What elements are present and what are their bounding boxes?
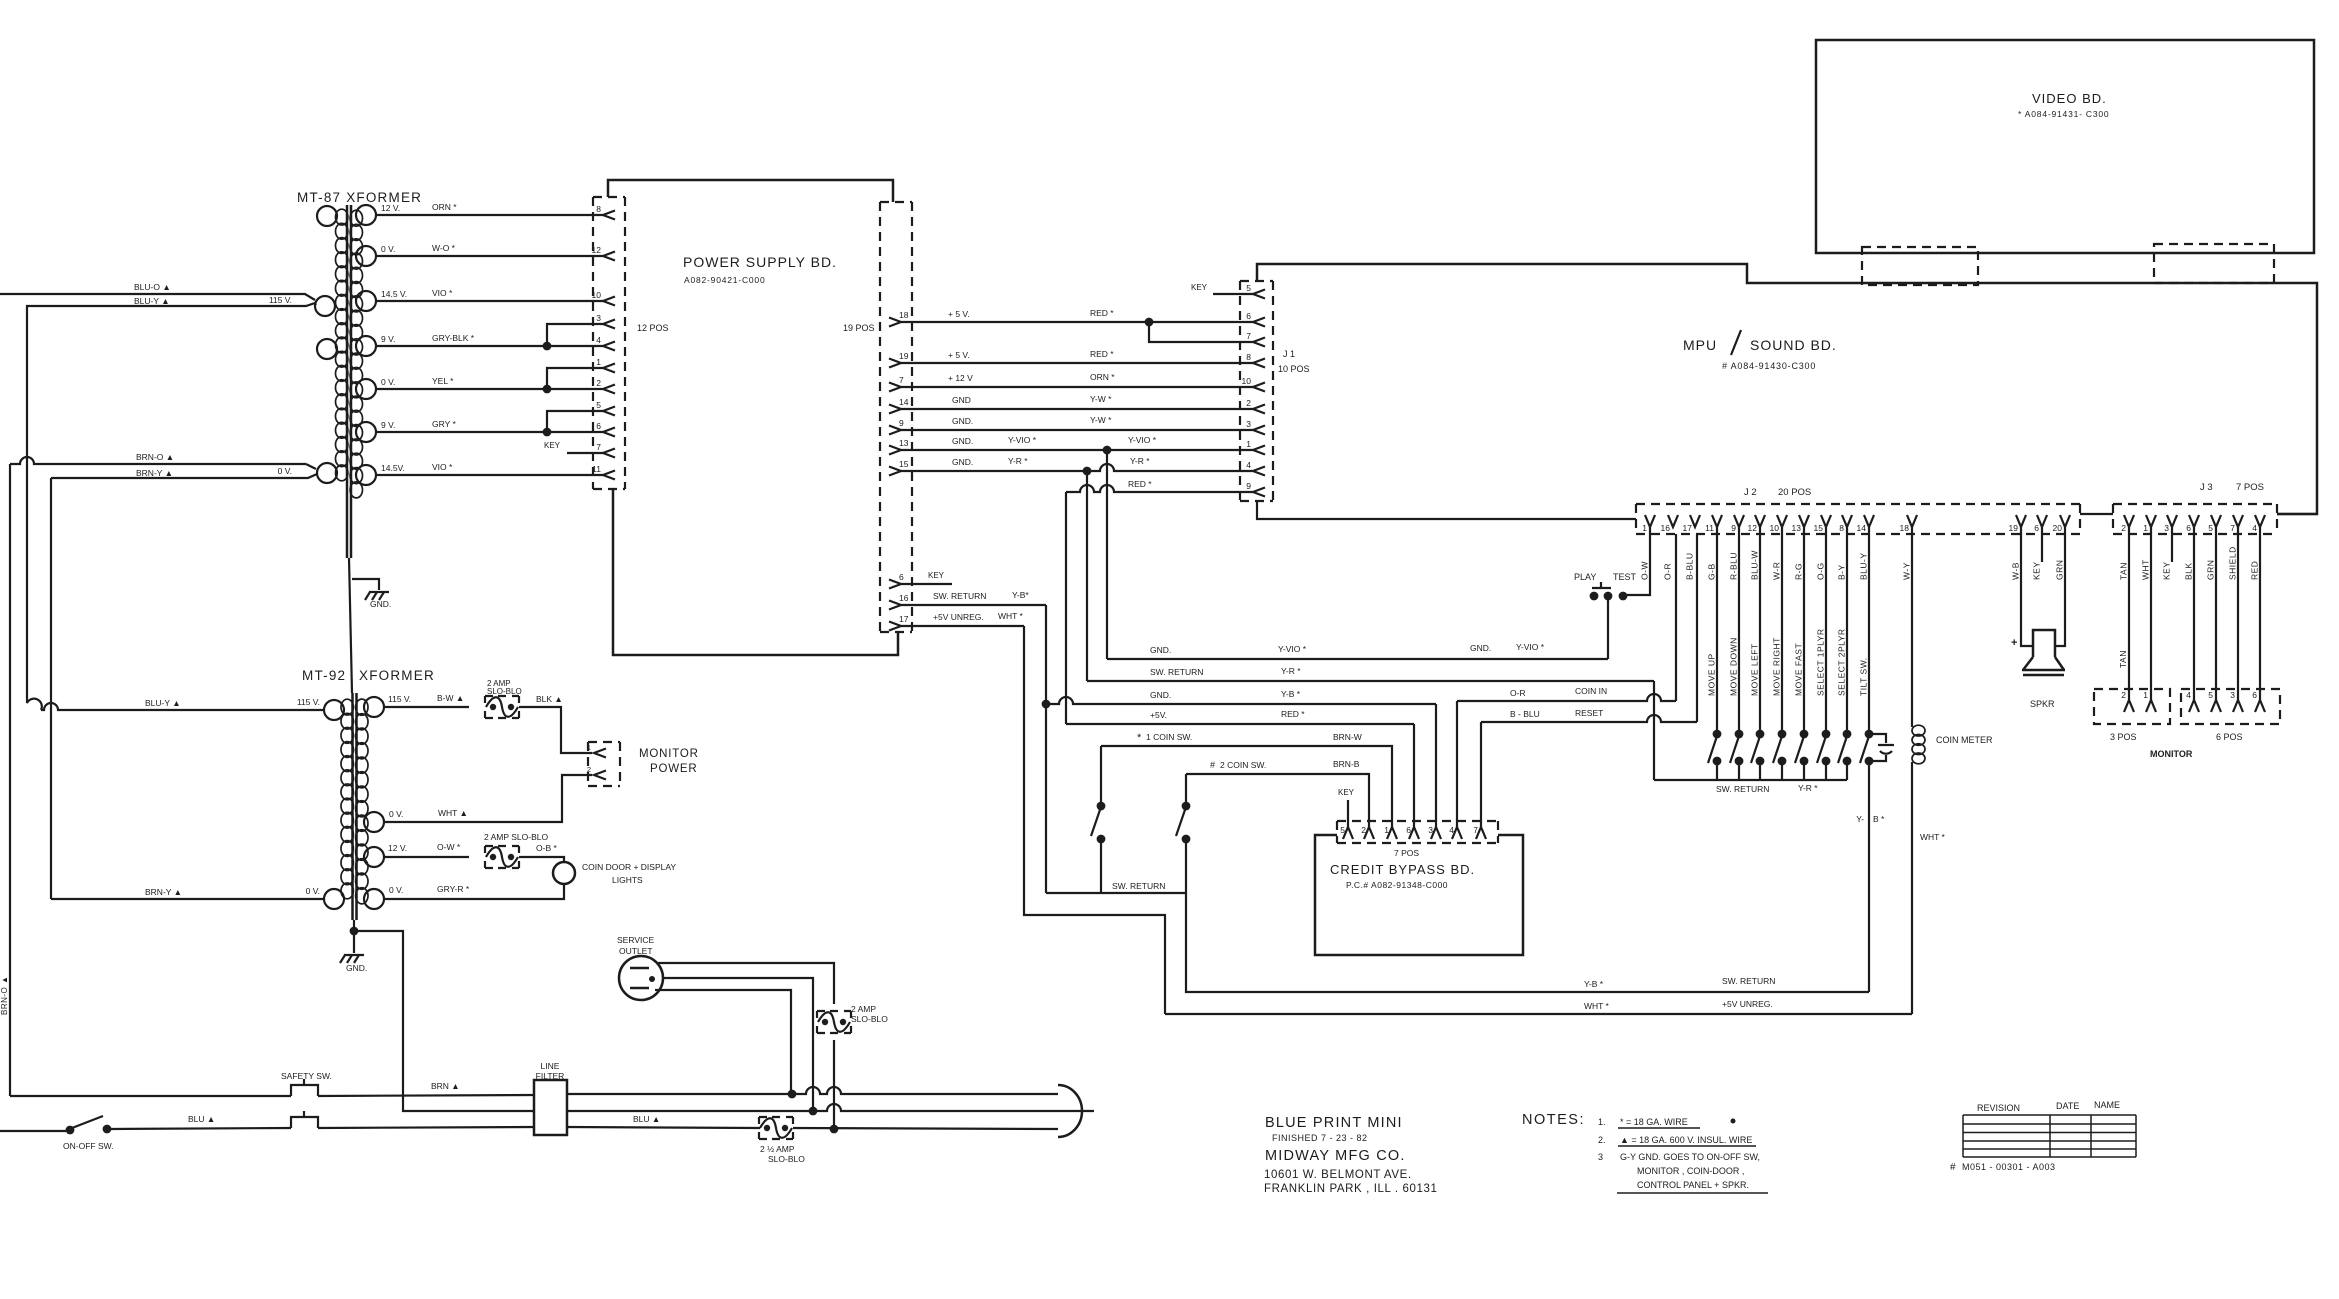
junction BLU / service outlet [830,1125,839,1134]
wire BRN-Y vertical to MT-92 0V [50,478,52,899]
switch MOVE DOWN stem to SW.RETURN bus [1738,761,1740,780]
svg-text:3: 3 [1428,825,1433,835]
svg-text:115 V.: 115 V. [388,694,411,704]
svg-text:GND: GND [952,395,971,405]
svg-text:2: 2 [1246,398,1251,408]
wire +5V RED PSU pin18 to J1 pin6 [901,321,1253,323]
wire MT-87 14.5V. VIO * to 12POS pin 11 [376,474,603,476]
CB 7POS pin 2 [1364,827,1374,839]
connector MONITOR 6 POS dashed box [2181,689,2280,724]
19POS pin 15 [889,467,901,476]
MT-87 secondary terminal 215 [356,205,376,225]
svg-text:7: 7 [899,375,904,385]
svg-text:O-W: O-W [1640,561,1650,580]
svg-text:WHT *: WHT * [1584,1001,1610,1011]
svg-text:MONITOR: MONITOR [639,748,699,760]
transformer MT-87 primary winding [336,209,348,225]
svg-text:+ 5 V.: + 5 V. [948,309,970,319]
svg-text:+5V.: +5V. [1150,710,1167,720]
svg-text:▲ = 18 GA. 600 V. INSUL. WIRE: ▲ = 18 GA. 600 V. INSUL. WIRE [1620,1135,1752,1145]
svg-text:MOVE DOWN: MOVE DOWN [1729,637,1739,696]
svg-text:16: 16 [899,593,909,603]
svg-text:BLU ▲: BLU ▲ [633,1114,660,1124]
junction GND Y-R branch [1083,467,1092,476]
svg-text:BLU-Y: BLU-Y [1859,552,1869,580]
AC plug symbol [1058,1085,1082,1137]
J1 pin 9 [1253,488,1265,497]
svg-text:J 3: J 3 [2200,482,2213,493]
svg-text:Y-B *: Y-B * [1281,689,1301,699]
wire RED J3 pin4 to 6POS pin6 [2259,527,2261,700]
svg-text:2: 2 [2121,523,2126,533]
J3 pin 1 wire WHT [2146,515,2156,527]
CB 7POS pin 1 [1387,827,1397,839]
svg-text:19: 19 [899,351,909,361]
svg-text:Y-W *: Y-W * [1090,415,1112,425]
wire MT-87 0 V. YEL * to 12POS pin 2 [376,388,603,390]
transformer MT-92 primary winding [341,699,353,715]
wire BLU to line filter [318,1127,534,1128]
svg-text:3: 3 [2230,690,2235,700]
MT-92 core to ground [353,920,355,953]
12POS pin 11 [603,471,615,480]
svg-text:14: 14 [899,397,909,407]
svg-text:0 V.: 0 V. [278,466,292,476]
switch MOVE RIGHT wire from J2 [1781,527,1783,730]
J2 pin 1 wire O-W [1645,515,1655,527]
wire SHIELD J3 pin7 to 6POS pin3 [2237,527,2239,700]
switch SELECT 1PLYR stem to SW.RETURN bus [1825,761,1827,780]
wire BRN-Y 0V [51,474,317,478]
svg-text:+ 12 V: + 12 V [948,373,973,383]
svg-text:SW. RETURN: SW. RETURN [1716,784,1769,794]
svg-text:A082-90421-C000: A082-90421-C000 [684,275,765,285]
19POS KEY pin6 stub [901,583,952,585]
wire SW.RETURN coin switches [1046,892,1186,894]
lamp COIN DOOR + DISPLAY LIGHTS [553,862,575,884]
svg-text:#: # [1210,760,1215,770]
svg-text:RED: RED [2250,561,2260,580]
svg-text:B-W ▲: B-W ▲ [437,693,464,703]
svg-text:BLK ▲: BLK ▲ [536,694,563,704]
svg-text:MOVE RIGHT: MOVE RIGHT [1772,637,1782,696]
svg-text:1: 1 [1384,825,1389,835]
wire SW.RETURN Y-R to switch bus [1087,680,1654,682]
MT-87 ground takeoff [352,579,379,590]
wire WHT J3 pin1 to 3POS pin1 [2150,527,2152,700]
MT-87 primary terminal 115V [315,296,335,316]
MT-87 primary terminal (n.c.) [317,206,337,226]
svg-text:TEST: TEST [1613,572,1637,582]
svg-text:BLU ▲: BLU ▲ [188,1114,215,1124]
svg-text:8: 8 [1839,523,1844,533]
switch MOVE UP contacts and blade [1713,730,1722,739]
fuse 2 AMP SLO-BLO (service) [817,1011,851,1033]
svg-text:RED *: RED * [1090,308,1114,318]
svg-text:1 COIN SW.: 1 COIN SW. [1146,732,1192,742]
svg-text:13: 13 [1792,523,1802,533]
svg-text:VIO *: VIO * [432,288,453,298]
connector J2 20 POS dashed box [1636,504,2080,534]
coin switch 2 [1185,774,1187,806]
junction GND Y-VIO branch [1103,446,1112,455]
svg-text:2: 2 [1361,825,1366,835]
svg-text:TILT SW.: TILT SW. [1859,657,1869,696]
wire J1 bottom to J2 pin1 area [1257,501,1636,519]
wire J2 pin18 W-Y to coin meter [1911,527,1913,727]
svg-text:* = 18 GA. WIRE: * = 18 GA. WIRE [1620,1117,1688,1127]
svg-text:P.C.# A082-91348-C000: P.C.# A082-91348-C000 [1346,880,1448,890]
6POS pin 5 [2211,700,2221,712]
J3 pin 3 wire KEY [2167,515,2177,527]
junction 12POS pins 5-6 strap [543,428,552,437]
svg-text:COIN METER: COIN METER [1936,735,1993,745]
switch TILT SW. wire from J2 [1868,527,1870,730]
6POS pin 4 [2189,700,2199,712]
svg-text:2.: 2. [1598,1135,1606,1145]
svg-text:Y-W *: Y-W * [1090,394,1112,404]
svg-text:ORN *: ORN * [432,202,457,212]
svg-text:OUTLET: OUTLET [619,946,653,956]
svg-text:2 COIN SW.: 2 COIN SW. [1220,760,1266,770]
wire WHT monitor power pin2 to MT-92 0V [384,775,592,822]
wire BLU-Y 115V [27,303,315,307]
junction +5V to J1 pin7 [1145,318,1154,327]
12POS pin 6 [603,428,615,437]
svg-text:MOVE LEFT: MOVE LEFT [1750,643,1760,696]
19POS pin 9 [889,426,901,435]
svg-text:GND.: GND. [952,436,973,446]
svg-text:5: 5 [1340,825,1345,835]
svg-text:LIGHTS: LIGHTS [612,875,643,885]
wire BLK J3 pin6 to 6POS pin4 [2193,527,2195,700]
svg-text:1.: 1. [1598,1117,1606,1127]
junction 12POS pins 1-2 strap [543,385,552,394]
svg-text:7: 7 [1246,331,1251,341]
svg-text:SW. RETURN: SW. RETURN [933,591,986,601]
svg-text:BLUE PRINT MINI: BLUE PRINT MINI [1265,1115,1403,1131]
J3 pin 4 wire RED [2255,515,2265,527]
wire GND Y-W PSU pin14 to J1 pin2 [901,408,1253,410]
J1 pin 8 [1253,359,1265,368]
svg-text:0 V.: 0 V. [306,886,320,896]
svg-text:+: + [2011,637,2017,649]
MT-87 primary terminal (n.c.) [317,339,337,359]
6POS pin 3 [2233,700,2243,712]
J2 pin 6 wire KEY [2037,515,2047,527]
12POS pin 7 [603,449,615,458]
svg-text:LINE: LINE [541,1061,560,1071]
svg-text:KEY: KEY [544,441,561,450]
svg-text:O-R: O-R [1510,688,1526,698]
svg-text:4: 4 [1449,825,1454,835]
fuse 2 AMP SLO-BLO (coin door) [485,846,519,868]
CB 7POS pin 7 [1476,827,1486,839]
svg-text:5: 5 [596,400,601,410]
svg-text:8: 8 [596,204,601,214]
svg-text:5: 5 [2208,690,2213,700]
svg-text:R-BLU: R-BLU [1729,552,1739,580]
switch MOVE LEFT stem to SW.RETURN bus [1759,761,1761,780]
J1 pin 5 [1253,290,1265,299]
svg-text:DATE: DATE [2056,1101,2079,1111]
svg-text:12 V.: 12 V. [381,203,400,213]
switch MOVE UP stem to SW.RETURN bus [1716,761,1718,780]
svg-text:MPU: MPU [1683,337,1717,353]
fuse 2 AMP SLO-BLO (monitor) [485,696,519,718]
svg-text:2 AMP SLO-BLO: 2 AMP SLO-BLO [484,832,548,842]
svg-text:SHIELD: SHIELD [2228,546,2238,580]
MT-87 secondary terminal 301 [356,291,376,311]
svg-text:WHT *: WHT * [1920,832,1946,842]
6POS pin 6 [2255,700,2265,712]
svg-text:2 ½ AMP: 2 ½ AMP [760,1144,795,1154]
svg-text:SW. RETURN: SW. RETURN [1150,667,1203,677]
board VIDEO BD outline [1816,40,2314,253]
svg-text:1: 1 [2143,690,2148,700]
svg-text:9: 9 [1246,481,1251,491]
J2 pin 12 wire BLU-W [1755,515,1765,527]
svg-text:+5V UNREG.: +5V UNREG. [933,612,984,622]
svg-text:Y-R *: Y-R * [1008,456,1028,466]
wire MT-87 core to MT-92 core [349,558,352,693]
MT-87 primary terminal 0V [317,463,337,483]
junction middle / service outlet [809,1107,818,1116]
wire tilt switch to Y-B line [1868,761,1870,992]
svg-text:G-B: G-B [1707,563,1717,580]
svg-text:RED *: RED * [1128,479,1152,489]
svg-text:VIO *: VIO * [432,462,453,472]
J2 pin 13 wire R-G [1799,515,1809,527]
svg-text:+5V UNREG.: +5V UNREG. [1722,999,1773,1009]
svg-text:0 V.: 0 V. [389,885,403,895]
junction MT-92 ground node [350,927,359,936]
wire MT-87 12 V. ORN * to 12POS pin 8 [376,214,603,216]
svg-text:WHT ▲: WHT ▲ [438,808,468,818]
board MPU/SOUND BD outline [1257,264,2317,514]
SW.RETURN bus under switches [1654,779,1847,781]
wire Y-B SW.RETURN long run to tilt switch [1186,893,1869,992]
svg-text:12 V.: 12 V. [388,843,407,853]
svg-text:6: 6 [2034,523,2039,533]
J3 pin 2 wire TAN [2124,515,2134,527]
wire service outlet middle to GND line [663,978,813,1111]
J1 pin 1 [1253,446,1265,455]
svg-text:ON-OFF SW.: ON-OFF SW. [63,1141,114,1151]
svg-text:MONITOR , COIN-DOOR ,: MONITOR , COIN-DOOR , [1637,1166,1744,1176]
wire Y-B vertical [1045,605,1047,893]
svg-text:Y-VIO *: Y-VIO * [1516,642,1545,652]
MT-87 secondary terminal 346 [356,336,376,356]
svg-text:12 POS: 12 POS [637,323,669,333]
node 115V tap MT-87 [315,303,316,305]
switch TILT SW. contacts and blade [1865,730,1874,739]
J2 pin 15 wire O-G [1821,515,1831,527]
wire B-BLU RESET credit bypass pin7 to J2 pin17 [1481,715,1697,722]
CB 7POS pin 5 [1343,827,1353,839]
MT-87 secondary terminal 475 [356,465,376,485]
svg-text:R-G: R-G [1794,563,1804,580]
svg-text:7: 7 [1473,825,1478,835]
svg-text:BRN-B: BRN-B [1333,759,1360,769]
wire BRN-Y to MT-92 0V [51,898,324,900]
pushbutton PLAY/TEST [1590,592,1599,601]
svg-text:1: 1 [587,743,591,752]
svg-text:W-O *: W-O * [432,243,456,253]
J1 pin 3 [1253,426,1265,435]
wire MT-87 9 V. GRY * to 12POS pin 6 [376,431,603,433]
wire J3 to MPU right edge [2277,513,2317,515]
wire MT-87 0 V. W-O * to 12POS pin 12 [376,255,603,257]
MT-92 primary terminal 0V [324,889,344,909]
wire O-B to lamp [519,857,564,862]
svg-text:SERVICE: SERVICE [617,935,654,945]
wire RED vertical to +5V line [1065,492,1067,724]
wire +5V RED to credit bypass pin6 [1066,723,1414,725]
svg-text:TAN: TAN [2119,562,2129,580]
switch SELECT 2PLYR wire from J2 [1846,527,1848,730]
svg-text:B - BLU: B - BLU [1510,709,1540,719]
svg-text:20 POS: 20 POS [1778,487,1811,498]
wire O-R COIN IN credit bypass pin4 to J2 pin16 [1457,694,1676,701]
svg-text:6 POS: 6 POS [2216,732,2243,742]
wire MT-92 12V O-W to fuse [384,856,469,858]
svg-text:O-G: O-G [1816,562,1826,580]
J2 KEY pin6 stub [2041,527,2043,562]
connector J1 dashed box [1240,281,1273,501]
svg-text:Y-VIO *: Y-VIO * [1128,435,1157,445]
CB 7POS pin 3 [1431,827,1441,839]
wire MT-92 0V GRY-R to lamp [384,884,564,899]
svg-text:BRN-O ▲: BRN-O ▲ [0,976,9,1015]
svg-text:PLAY: PLAY [1574,572,1596,582]
svg-text:0 V.: 0 V. [389,809,403,819]
svg-text:1: 1 [1642,523,1647,533]
svg-text:*: * [1137,732,1142,744]
svg-text:17: 17 [1683,523,1693,533]
svg-text:3: 3 [596,313,601,323]
transformer MT-87 core [347,205,351,558]
junction Y-B / GND [1042,700,1051,709]
svg-text:W-Y: W-Y [1902,562,1912,580]
svg-text:KEY: KEY [1338,788,1355,797]
svg-text:17: 17 [899,614,909,624]
svg-text:2: 2 [2121,690,2126,700]
svg-text:0 V.: 0 V. [381,244,395,254]
svg-text:BLU-Y ▲: BLU-Y ▲ [134,296,170,306]
svg-text:2 AMP: 2 AMP [851,1004,876,1014]
wire J2-J3 link [2080,513,2113,515]
svg-text:4: 4 [2252,523,2257,533]
switch MOVE UP wire from J2 [1716,527,1718,730]
svg-text:O-R: O-R [1663,563,1673,580]
switch MOVE RIGHT contacts and blade [1778,730,1787,739]
J1 pin 6 [1253,318,1265,327]
switch MOVE LEFT contacts and blade [1756,730,1765,739]
svg-text:12: 12 [592,245,602,255]
J3 pin 5 wire GRN [2211,515,2221,527]
speaker SPKR symbol [2022,630,2065,675]
transformer MT-87 secondary winding [350,210,362,226]
CB 7POS pin 4 [1452,827,1462,839]
svg-text:CONTROL PANEL + SPKR.: CONTROL PANEL + SPKR. [1637,1180,1749,1190]
junction 12POS pins 3-4 strap [543,342,552,351]
svg-text:Y-VIO *: Y-VIO * [1278,644,1307,654]
svg-text:GND.: GND. [1150,645,1171,655]
J2 pin 10 wire W-R [1777,515,1787,527]
video board connector (right) dashed [2154,244,2274,283]
switch SELECT 2PLYR stem to SW.RETURN bus [1846,761,1848,780]
svg-text:MONITOR: MONITOR [2150,749,2193,759]
svg-text:GRN: GRN [2055,560,2065,580]
video board connector (left) dashed [1862,247,1978,285]
svg-text:12: 12 [1748,523,1758,533]
svg-text:BLU-O ▲: BLU-O ▲ [134,282,171,292]
switch SAFETY SW (BLU pole) [291,1111,318,1128]
J1 pin 4 [1253,467,1265,476]
wire GND Y-VIO to PLAY/TEST [1107,658,1608,660]
svg-text:6: 6 [2186,523,2191,533]
svg-text:G-Y GND. GOES TO ON-OFF SW,: G-Y GND. GOES TO ON-OFF SW, [1620,1152,1760,1162]
3POS pin 2 [2124,700,2134,712]
svg-text:RESET: RESET [1575,708,1603,718]
switch MOVE DOWN wire from J2 [1738,527,1740,730]
board CREDIT BYPASS BD outline [1315,835,1523,955]
wire BLU-O 115V from left edge [0,294,315,300]
svg-text:4: 4 [2186,690,2191,700]
svg-text:9: 9 [899,418,904,428]
svg-text:J 1: J 1 [1283,349,1295,359]
svg-text:Y-B*: Y-B* [1012,590,1029,600]
svg-text:15: 15 [1814,523,1824,533]
svg-text:CREDIT BYPASS BD.: CREDIT BYPASS BD. [1330,862,1475,877]
J3 KEY pin3 stub [2171,527,2173,562]
wire middle (GND) after line filter to plug [567,1104,1094,1111]
wire J2 pin20 GRN to speaker [2055,527,2065,646]
svg-text:POWER SUPPLY BD.: POWER SUPPLY BD. [683,254,837,270]
svg-text:B-Y: B-Y [1837,564,1847,580]
svg-text:2: 2 [587,765,591,774]
svg-text:Y-VIO *: Y-VIO * [1008,435,1037,445]
svg-text:7: 7 [2230,523,2235,533]
svg-text:O-B *: O-B * [536,843,557,853]
svg-text:5: 5 [2208,523,2213,533]
svg-text:3: 3 [2164,523,2169,533]
svg-text:14: 14 [1857,523,1867,533]
wire BLU after line filter [567,1127,760,1128]
svg-text:115 V.: 115 V. [269,295,292,305]
svg-text:RED *: RED * [1090,349,1114,359]
svg-text:GND.: GND. [346,963,367,973]
wire BRN-O vertical to safety switch line [9,464,11,1096]
svg-text:NOTES:: NOTES: [1522,1112,1585,1128]
svg-text:9 V.: 9 V. [381,420,395,430]
monitor power pin 2 [594,771,606,780]
wire +5V UNREG WHT from PSU pin17 [901,625,1024,627]
svg-text:SELECT 2PLYR: SELECT 2PLYR [1837,628,1847,696]
12POS KEY pin 7 stub [567,452,603,454]
J2 pin 14 wire BLU-Y [1864,515,1874,527]
svg-text:6: 6 [1406,825,1411,835]
svg-text:KEY: KEY [2032,561,2042,580]
wire service outlet bottom to BRN line [655,990,791,1094]
svg-text:4: 4 [596,335,601,345]
wire MT-92 115V B-W to fuse [384,706,469,708]
svg-text:GRY-R *: GRY-R * [437,884,470,894]
svg-text:14.5 V.: 14.5 V. [381,289,407,299]
3POS pin 1 [2146,700,2156,712]
service outlet SERVICE OUTLET [619,956,663,1000]
